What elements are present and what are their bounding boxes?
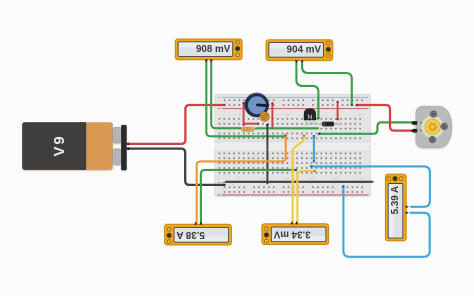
wire green multimeter1 right probe to row c / resistor [211,61,240,129]
svg-text:15: 15 [286,176,290,180]
wire red jumper near diode [336,101,338,121]
wire black vertical jumper mid-board [266,124,268,184]
svg-text:908 mV: 908 mV [196,44,231,55]
wire black long jumper on bottom rail [226,181,373,183]
wire red breadboard to motor [356,104,414,131]
potentiometer [245,93,269,117]
wire green multimeter1 left probe to row e [206,61,286,138]
photoresistor LDR [260,112,269,121]
wire green row c segment resistor to transistor [256,127,318,129]
multimeter U3 5.38 A (rotated 180) [165,221,232,245]
svg-text:5.38 A: 5.38 A [176,229,205,240]
wire blue vertical jumper rows e-g [313,135,315,163]
breadboard [215,94,371,196]
dc motor [411,106,452,147]
diode [319,122,342,127]
wire black battery negative to breadboard bottom rail [127,147,225,186]
multimeter U4 3.34 mV (rotated 180) [262,221,329,245]
battery 9V [22,122,127,170]
wire blue row h to multimeter5 top probe [310,165,430,207]
svg-text:25: 25 [334,176,338,180]
wire red battery positive to breadboard top rail [127,104,226,145]
wire green breadboard to motor [318,122,412,135]
svg-text:30: 30 [358,176,362,180]
svg-text:3.34 mV: 3.34 mV [273,229,311,240]
svg-text:10: 10 [261,176,265,180]
transistor NPN [304,109,316,125]
multimeter U2 904 mV [266,40,333,64]
svg-text:30: 30 [358,113,362,117]
wire green multimeter3 probe to row i [201,169,297,223]
wire red short horizontal below potentiometer [243,123,259,125]
wire yellow multimeter4 right probe [297,170,316,223]
svg-text:904 mV: 904 mV [287,45,322,56]
svg-text:5.39 A: 5.39 A [390,186,401,215]
multimeter U5 5.39 A (rotated 90) [385,174,409,241]
svg-text:V9: V9 [51,135,68,157]
svg-text:20: 20 [310,176,314,180]
wire orange multimeter3 probe to board [197,134,287,223]
wire red jumper right of potentiometer [271,102,273,129]
resistor on row c [241,127,257,131]
wire yellow multimeter4 left probe [293,135,306,223]
wire blue multimeter5 bottom probe to bottom rail [342,185,430,257]
wire green multimeter2 right probe to top rail [302,61,353,107]
wire red jumper left of potentiometer [242,102,244,126]
svg-text:15: 15 [286,113,290,117]
multimeter U1 908 mV [175,39,242,63]
wire green multimeter2 left probe into board [296,61,319,120]
